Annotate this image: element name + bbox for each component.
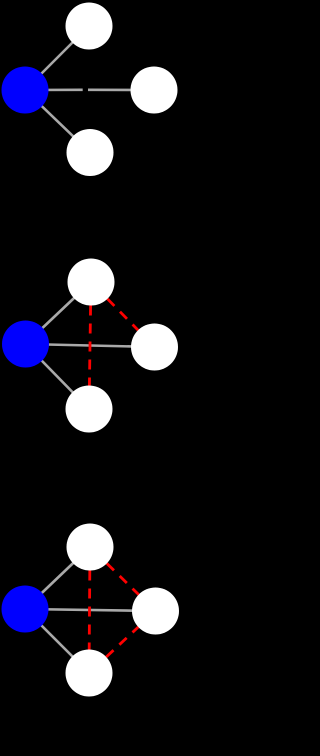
node graph2 blue xyxy=(2,321,49,368)
wire: graph1 edge blue-right (gapped) right segment xyxy=(88,89,154,92)
node graph3 right xyxy=(132,588,179,635)
wire: graph1 edge blue-right (gapped) left segment xyxy=(25,89,83,92)
wire: graph3 edge blue-top xyxy=(25,547,90,609)
wire: graph1 edge blue-bottom xyxy=(25,90,90,153)
node graph1 top xyxy=(66,3,113,50)
wire: graph3 red dashed edge top-bottom xyxy=(88,571,91,650)
node graph2 top xyxy=(68,259,115,306)
wire: graph2 red dashed edge top-bottom xyxy=(89,306,90,386)
node graph2 right xyxy=(131,324,178,371)
node graph2 bottom xyxy=(66,386,113,433)
wire: graph3 edge blue-bottom xyxy=(25,609,89,673)
node graph1 bottom xyxy=(67,129,114,176)
wire: graph2 edge blue-right xyxy=(26,344,155,347)
node graph1 blue xyxy=(2,67,49,114)
node graph1 right xyxy=(131,67,178,114)
wire: graph3 red dashed edge bottom-right xyxy=(106,627,138,657)
wire: graph2 edge blue-top xyxy=(26,282,92,344)
node graph3 blue xyxy=(2,586,49,633)
wire: graph2 edge blue-bottom xyxy=(26,344,90,409)
wire: graph2 red dashed edge top-right xyxy=(107,299,138,330)
node graph3 top xyxy=(67,524,114,571)
node graph3 bottom xyxy=(66,650,113,697)
wire: graph3 red dashed edge top-right xyxy=(107,563,139,594)
wire: graph1 edge blue-top xyxy=(25,26,89,90)
wire: graph3 edge blue-right xyxy=(25,609,156,611)
